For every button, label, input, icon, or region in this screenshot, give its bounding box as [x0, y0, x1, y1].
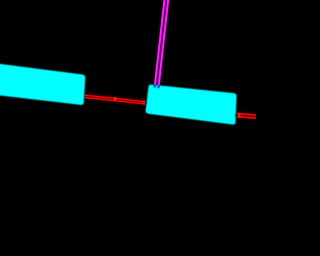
net RED glow segment A halo: [85, 96, 146, 102]
wire segment B lower (red trace right of U2): [236, 116, 257, 118]
wire segment A upper (red trace U1-U2): [85, 95, 146, 101]
net RED glow segment B halo: [236, 115, 257, 117]
net MAG wire 1 (left magenta line): [155, 0, 165, 86]
pad dot A4 (right end lower): [143, 103, 145, 105]
node P4 (dark contact notch, red on U2 right edge): [235, 114, 237, 118]
junction via JA (bright bar on segment A): [114, 97, 117, 101]
net MAG glow (magenta pair halo): [157, 0, 167, 86]
pad dot A2 (left end lower): [86, 97, 88, 99]
component U1 (left cyan body): [0, 63, 85, 105]
junction via JB (bright bar on segment B): [238, 113, 240, 118]
wire segment A lower (red trace U1-U2): [85, 98, 146, 104]
node P1 (blue blend spot, magenta wire 1 on U2): [154, 84, 157, 88]
wire segment B upper (red trace right of U2): [236, 113, 257, 115]
pad dot A3 (right end upper): [143, 101, 145, 103]
component U2 (right cyan body): [146, 85, 237, 125]
node P3 (dark contact notch, red on U2 left edge): [145, 101, 147, 105]
net MAG wire 2 (right magenta line): [159, 0, 169, 86]
pad dot A1 (left end upper): [86, 95, 88, 97]
node P2 (blue blend spot, magenta wire 2 on U2): [157, 85, 160, 89]
